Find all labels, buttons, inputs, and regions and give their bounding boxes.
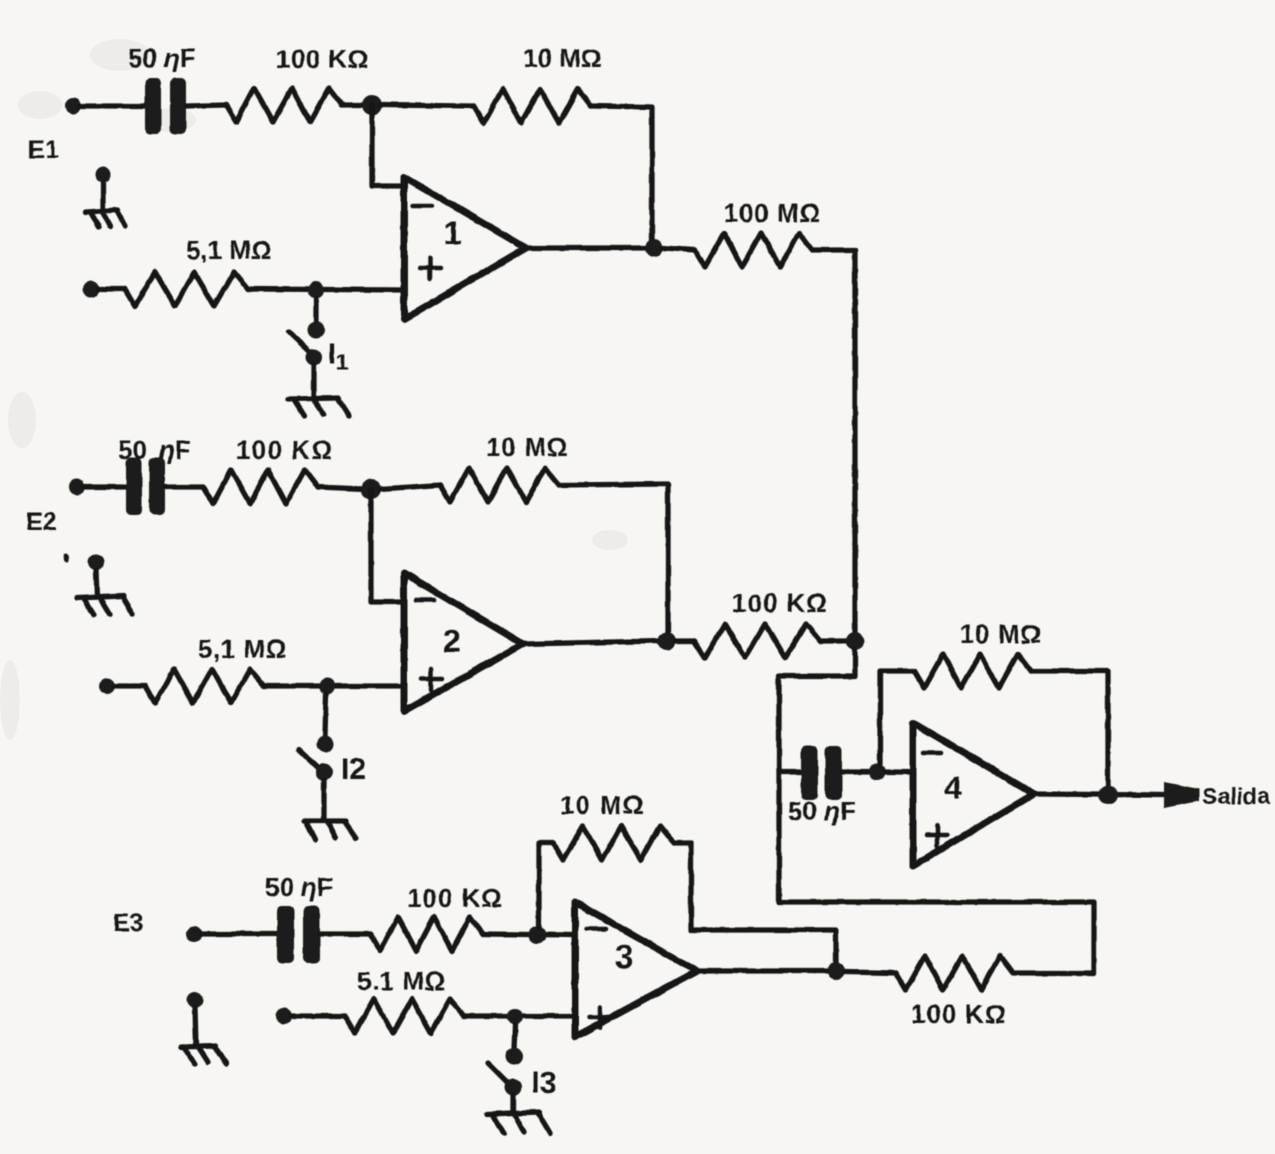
wire C1 to R1 — [186, 105, 226, 106]
node E3 input terminal — [186, 926, 202, 942]
node ch1 + source terminal — [83, 281, 99, 297]
svg-text:I2: I2 — [341, 753, 366, 786]
ground below E3 — [181, 992, 226, 1064]
node ch3 + source terminal — [276, 1008, 292, 1024]
ground below E1 — [86, 167, 125, 227]
wire node D down to op-amp2 inverting input — [371, 489, 404, 602]
resistor 5.1 MΩ (ch3) — [345, 999, 464, 1033]
wire node A to 10M feedback resistor — [380, 105, 474, 106]
wire 100M to summing bus — [812, 250, 855, 641]
wire bottom rail to ch3 output corner — [779, 902, 1094, 973]
op-amp U4 plus sign — [927, 825, 948, 846]
svg-text:100 KΩ: 100 KΩ — [732, 588, 828, 618]
wire R1 to node A — [342, 102, 364, 107]
svg-text:50 ηF: 50 ηF — [128, 43, 196, 73]
capacitor C4 50nF (plate 1) — [801, 746, 818, 800]
svg-text:I1: I1 — [328, 339, 348, 375]
wire E3 terminal to C3 — [201, 931, 279, 936]
switch I2 — [299, 694, 334, 820]
wire node A down to op-amp1 inverting input — [372, 105, 404, 186]
op-amp U3 plus sign — [590, 1007, 611, 1028]
resistor 100 KΩ (ch3 input) — [370, 917, 483, 951]
wire E1 terminal to C1 — [80, 103, 147, 108]
svg-text:3: 3 — [615, 938, 633, 975]
op-amp U3 minus sign — [587, 927, 606, 932]
wire bus tap to C4 — [779, 769, 802, 774]
op-amp U4 triangle — [913, 723, 1034, 866]
node C (ch1 + input junction) — [308, 282, 324, 298]
wire op-amp1 output to node B — [526, 245, 646, 250]
node J (op-amp4 output) — [1099, 786, 1118, 805]
wire node H to op-amp4 input — [885, 769, 913, 774]
node D (ch2 summing junction) — [361, 479, 381, 499]
svg-text:E1: E1 — [28, 136, 59, 164]
wire node E to ch2 output 100K — [676, 638, 694, 643]
capacitor C1 50nF (plate 2) — [170, 78, 186, 134]
node K (ch3 summing junction) — [528, 926, 546, 944]
capacitor C2 50nF (plate 2) — [149, 458, 165, 515]
svg-text:5,1 MΩ: 5,1 MΩ — [198, 634, 287, 664]
svg-text:10 MΩ: 10 MΩ — [560, 790, 645, 820]
wire E2 terminal to C2 — [84, 484, 128, 489]
wire terminal to ch3 5.1M — [291, 1013, 345, 1018]
op-amp U4 minus sign — [923, 751, 941, 756]
svg-text:2: 2 — [443, 623, 461, 659]
resistor 100 KΩ (ch2 output) — [694, 624, 820, 658]
capacitor C3 50nF (plate 1) — [277, 906, 294, 963]
wire ch2 5,1M to op-amp2 + input — [264, 683, 404, 688]
resistor 10 MΩ (ch2 feedback) — [440, 468, 559, 502]
resistor 5,1 MΩ (ch2) — [145, 669, 264, 703]
wire node K up to ch3 10M — [539, 843, 553, 927]
wire node D to ch2 10M — [380, 485, 440, 489]
wire op-amp2 output to node E — [523, 641, 659, 644]
svg-text:5.1 MΩ: 5.1 MΩ — [357, 966, 446, 996]
capacitor C3 50nF (plate 2) — [303, 906, 320, 963]
wire R2 to node D — [318, 487, 363, 489]
resistor 10 MΩ (op-amp4 feedback) — [914, 654, 1031, 688]
svg-text:10 MΩ: 10 MΩ — [960, 619, 1042, 649]
svg-text:100 KΩ: 100 KΩ — [236, 435, 333, 465]
resistor 10 MΩ (ch1 feedback) — [474, 89, 591, 123]
node A (ch1 summing junction) — [362, 95, 382, 115]
node G (ch2 + input junction) — [319, 678, 335, 694]
svg-text:10 MΩ: 10 MΩ — [523, 43, 602, 73]
node B (op-amp1 output) — [645, 239, 663, 257]
wire C4 to node H — [842, 769, 869, 774]
svg-text:100 KΩ: 100 KΩ — [407, 883, 503, 913]
wire ch3 10M right leg to op-amp3 output — [674, 843, 836, 963]
wire terminal to ch2 5,1M — [114, 683, 145, 688]
resistor 10 MΩ (ch3 feedback) — [553, 826, 674, 860]
ground below switch I2 — [304, 821, 356, 840]
op-amp U3 triangle — [575, 902, 697, 1037]
wire bus node F down-left-down to bottom rail — [779, 650, 855, 902]
wire R3 to op-amp3 inverting input — [483, 934, 575, 935]
wire ch2 10M to op-amp2 output (feedback right leg) — [559, 484, 668, 641]
node E2 input terminal — [69, 479, 85, 495]
Salida arrowhead — [1164, 782, 1199, 808]
switch I3 — [488, 1025, 523, 1113]
ground below E2 — [77, 554, 133, 615]
capacitor C1 50nF (plate 1) — [145, 78, 161, 134]
svg-text:50 ηF: 50 ηF — [788, 796, 856, 826]
svg-text:I3: I3 — [531, 1065, 557, 1100]
wire ch3 5.1M to op-amp3 + input — [464, 1013, 575, 1018]
switch I1 — [289, 298, 325, 398]
node M (ch3 + input junction) — [507, 1009, 523, 1025]
wire op-amp3 output to node L — [697, 968, 828, 973]
wire op-amp4 10M to output (feedback right leg) — [1031, 671, 1108, 787]
resistor 100 KΩ (ch3 output) — [896, 956, 1013, 990]
svg-text:Salida: Salida — [1202, 783, 1270, 809]
wire node H up to op-amp4 10M feedback — [880, 671, 914, 764]
op-amp U2 minus sign — [416, 598, 434, 603]
svg-text:1: 1 — [444, 215, 462, 251]
wire C3 to R3 — [320, 931, 370, 936]
resistor 100 KΩ (ch1 input) — [226, 88, 342, 122]
svg-text:100 KΩ: 100 KΩ — [276, 44, 369, 74]
svg-text:E3: E3 — [113, 909, 144, 937]
wire ch2 100K to bus node F — [820, 638, 847, 643]
capacitor C4 50nF (plate 2) — [825, 746, 842, 800]
wire 10M to op-amp1 output (feedback right leg) — [591, 106, 652, 248]
wire op-amp4 output to Salida — [1034, 794, 1166, 795]
svg-text:50 ηF: 50 ηF — [265, 872, 333, 902]
node ch2 + source terminal — [99, 678, 115, 694]
node E1 input terminal — [65, 98, 81, 114]
op-amp U1 triangle — [404, 177, 526, 319]
svg-text:10 MΩ: 10 MΩ — [486, 432, 569, 462]
wire C2 to R2 — [165, 484, 203, 489]
node H (op-amp4 inverting input) — [869, 764, 886, 781]
wire ch3 100K to corner — [1013, 970, 1094, 975]
svg-text:100 KΩ: 100 KΩ — [911, 999, 1007, 1029]
op-amp U1 plus sign — [420, 258, 441, 279]
node L (op-amp3 output) — [827, 962, 845, 980]
speck near E2 ground — [64, 554, 70, 563]
svg-text:100 MΩ: 100 MΩ — [724, 198, 821, 228]
node F (summing bus) — [846, 632, 864, 650]
op-amp U2 triangle — [404, 573, 523, 711]
paper smudges — [0, 39, 628, 740]
op-amp U2 plus sign — [421, 669, 442, 690]
op-amp U1 minus sign — [413, 204, 432, 209]
resistor 100 MΩ — [695, 233, 812, 267]
svg-text:E2: E2 — [26, 508, 57, 536]
wire 5,1M to op-amp1 + input — [248, 289, 404, 290]
wire node L to ch3 output 100K — [845, 972, 896, 973]
svg-text:4: 4 — [944, 770, 962, 806]
resistor 100 KΩ (ch2 input) — [203, 470, 318, 504]
resistor 5,1 MΩ (ch1) — [125, 272, 248, 306]
node E (op-amp2 output) — [658, 632, 676, 650]
wire terminal to 5,1M — [98, 286, 125, 291]
ground below switch I1 — [288, 398, 349, 416]
svg-text:5,1 MΩ: 5,1 MΩ — [186, 235, 272, 265]
ground below switch I3 — [487, 1112, 550, 1134]
wire node B to 100M — [663, 248, 695, 250]
capacitor C2 50nF (plate 1) — [126, 458, 142, 515]
